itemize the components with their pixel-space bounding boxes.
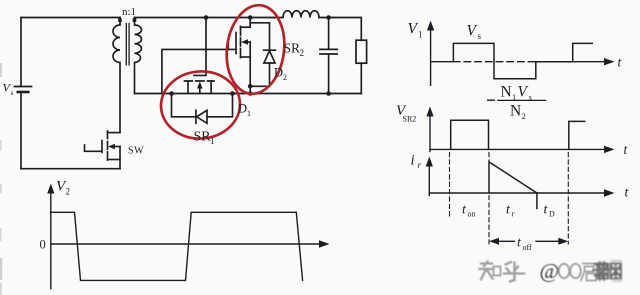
battery Vs short plate: [18, 91, 29, 94]
watermark tail dense characters: [594, 262, 622, 280]
V2 waveform: [51, 212, 303, 280]
VSR2 plot y axis arrowhead: [426, 107, 433, 117]
svg-text:D: D: [238, 102, 247, 116]
wire SR1 gate feed: [194, 18, 206, 76]
V1 waveform: [453, 43, 592, 78]
transformer T1 secondary winding: [135, 18, 142, 94]
svg-text:1: 1: [247, 109, 251, 118]
wire capacitor top lead: [328, 18, 330, 50]
transistor SR2 channel segments: [240, 27, 242, 58]
V1 plot x axis solid right: [536, 61, 605, 63]
highlight ellipse around SR2: [222, 2, 289, 97]
svg-text:t: t: [618, 55, 623, 70]
transistor SR2 source tick: [241, 56, 251, 58]
wire top rail secondary: [135, 17, 284, 19]
svg-text:SR: SR: [284, 41, 301, 56]
svg-text:0: 0: [40, 238, 46, 252]
transistor Q SW channel segments: [107, 131, 109, 160]
fraction bar: [498, 99, 546, 101]
transistor SR1 drain stub: [187, 81, 189, 94]
ir waveform triangle: [489, 162, 537, 193]
transistor SR1 source stub: [210, 81, 212, 94]
svg-text:SR: SR: [194, 130, 212, 145]
svg-text:2: 2: [66, 187, 71, 197]
ir plot y axis arrowhead: [426, 157, 433, 167]
svg-text:t: t: [544, 203, 549, 218]
svg-text:t: t: [624, 142, 629, 157]
transistor Q SW body tick: [112, 146, 120, 148]
V2 plot x axis arrowhead: [319, 240, 330, 247]
dashed guide line t-on start: [449, 153, 451, 219]
wire D2 branch bottom: [250, 63, 269, 86]
inductor L1: [283, 11, 319, 18]
dimension arrow t-off right head: [558, 238, 568, 245]
transistor SR2 drain tick: [241, 26, 251, 28]
battery Vs long plate: [15, 86, 32, 88]
svg-text:SR2: SR2: [403, 115, 417, 124]
transistor SR1 body arrow head: [197, 82, 203, 89]
node capacitor top junction: [326, 15, 331, 20]
node junction top rail to SR1 gate: [204, 15, 209, 20]
wire D2 branch top: [250, 23, 269, 50]
wire bottom rail secondary: [135, 93, 362, 95]
capacitor C1 top plate: [320, 48, 337, 50]
svg-text:V: V: [408, 21, 419, 38]
dashed guide line t-on end upper: [488, 153, 490, 162]
V1 plot x axis arrowhead: [604, 58, 615, 65]
transistor Q SW source tick: [108, 159, 121, 161]
VSR2 plot y axis: [429, 116, 431, 152]
V1 plot y axis: [430, 30, 432, 85]
svg-text:1: 1: [210, 136, 215, 146]
V2 plot x axis: [51, 243, 321, 245]
svg-text:D: D: [549, 210, 555, 219]
transistor Q SW drain tick: [108, 132, 121, 134]
wire inductor to load: [319, 18, 361, 41]
wire bottom rail primary: [21, 168, 120, 170]
transistor SR1 channel segments: [185, 80, 215, 82]
svg-text:s: s: [11, 88, 14, 97]
wire capacitor bottom lead: [328, 54, 330, 94]
wire left vertical bottom: [20, 92, 22, 169]
svg-text:D: D: [274, 66, 283, 80]
VSR2 waveform pulse 1: [451, 120, 489, 149]
svg-text:2: 2: [300, 48, 305, 58]
scan edge artifacts: [0, 63, 2, 295]
ir plot x axis: [429, 192, 604, 194]
label minus sign of fraction: [488, 99, 495, 101]
svg-text:V: V: [518, 83, 529, 100]
svg-text:N: N: [501, 83, 512, 100]
transistor SR2 body arrow: [241, 39, 248, 45]
dimension arrow t-off left head: [489, 238, 499, 245]
wire left vertical top (source to top rail): [20, 18, 22, 87]
svg-text:off: off: [523, 243, 533, 252]
wire SR2 gate feed stub: [227, 43, 229, 49]
transistor Q SW gate bar: [101, 141, 103, 153]
highlight ellipse around SR1: [159, 69, 242, 141]
node SR2 source junction: [248, 84, 253, 89]
wire SR2 drain vertical: [249, 18, 251, 28]
resistor R load: [356, 40, 367, 63]
wire top rail primary: [21, 17, 120, 19]
V1 plot y axis arrowhead: [427, 21, 434, 31]
ir waveform end spike below axis: [536, 193, 538, 209]
diode D1 cathode bar: [195, 110, 197, 123]
svg-text:r: r: [512, 210, 516, 219]
node SR2 rail junction: [248, 91, 253, 96]
ir plot y axis: [428, 166, 430, 196]
wire SW gate lead: [85, 145, 103, 151]
svg-text:on: on: [468, 210, 476, 219]
V2 plot y axis: [50, 191, 52, 289]
wire D1 branch right: [207, 94, 233, 117]
VSR2 waveform pulse 2: [569, 121, 585, 149]
svg-text:i: i: [411, 153, 415, 169]
wire SR2 gate feed: [162, 49, 236, 93]
VSR2 plot x axis: [430, 148, 605, 150]
svg-text:n:1: n:1: [122, 6, 136, 18]
V1 plot x axis dashed section: [453, 61, 535, 63]
wire D1 branch left: [172, 94, 196, 117]
V1 plot x axis solid left: [431, 61, 454, 63]
node capacitor bottom junction: [326, 91, 331, 96]
VSR2 plot x axis arrowhead: [604, 146, 615, 153]
dimension arrow t-off right shaft: [536, 240, 561, 242]
transistor Q SW body arrow: [108, 144, 115, 150]
ir plot x axis arrowhead: [604, 189, 615, 196]
svg-text:2: 2: [283, 73, 287, 82]
transformer T1 primary dot: [118, 18, 122, 22]
node SR1 right junction: [230, 91, 235, 96]
svg-text:V: V: [467, 23, 478, 40]
transformer T1 core: [126, 24, 129, 66]
diode D2 triangle: [264, 51, 275, 63]
svg-text:t: t: [462, 203, 467, 218]
wire SR2 source vertical: [249, 42, 251, 86]
svg-text:SW: SW: [128, 146, 144, 157]
capacitor C1 bottom plate: [320, 53, 337, 55]
diode D2 cathode bar: [264, 49, 276, 51]
node SR2 drain junction: [248, 15, 253, 20]
node SR1 left junction: [169, 91, 174, 96]
svg-text:t: t: [506, 203, 511, 218]
svg-text:r: r: [418, 160, 422, 170]
wire SW source vertical: [119, 147, 121, 169]
dashed guide line t-off start lower: [488, 196, 490, 245]
transistor SR2 body tick: [245, 41, 251, 43]
transistor SR2 gate bar: [235, 33, 237, 54]
svg-text:t: t: [517, 236, 522, 251]
svg-text:@: @: [540, 259, 560, 283]
V2 plot y axis arrowhead: [47, 184, 54, 194]
watermark zhihu: [480, 259, 597, 283]
svg-text:2: 2: [522, 111, 526, 121]
transistor SR1 body arrow shaft: [199, 85, 201, 94]
diode D1 triangle: [197, 110, 207, 123]
svg-text:N: N: [510, 103, 521, 120]
dimension arrow t-off left shaft: [497, 240, 515, 242]
dashed guide line t-off end: [567, 153, 569, 245]
svg-text:t: t: [625, 185, 630, 200]
svg-text:s: s: [478, 31, 482, 41]
wire load bottom lead: [360, 63, 362, 93]
wire SR2 source to rail: [249, 86, 251, 93]
transformer T1 secondary dot: [133, 18, 137, 22]
transformer T1 primary winding: [113, 18, 120, 133]
svg-text:1: 1: [418, 30, 423, 40]
